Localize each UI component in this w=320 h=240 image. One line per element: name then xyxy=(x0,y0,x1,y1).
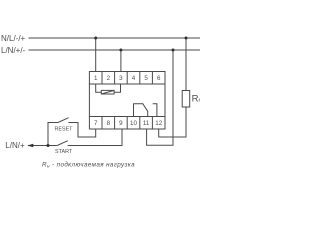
svg-text:RESET: RESET xyxy=(55,127,74,133)
arrowhead L/N/+ input xyxy=(27,144,33,147)
svg-text:6: 6 xyxy=(157,75,161,82)
pin numbers 7-12 xyxy=(94,120,163,127)
svg-text:1: 1 xyxy=(94,75,98,82)
switch START blade xyxy=(57,141,68,146)
module body xyxy=(89,84,165,117)
varistor RU1 between terminals 1 and 3 xyxy=(96,84,121,94)
terminal row 1-6 xyxy=(89,72,165,85)
wire bus1 to resistor top xyxy=(185,38,187,91)
svg-text:10: 10 xyxy=(130,120,137,127)
net L/N/+/- bus wire xyxy=(29,49,201,51)
svg-text:START: START xyxy=(55,149,73,155)
net N/L/-/+ bus wire xyxy=(29,37,201,39)
wire bus2 to terminal 3 xyxy=(120,50,122,72)
svg-text:4: 4 xyxy=(132,75,136,82)
wire L/N/+ bus with START to terminal 9 xyxy=(28,129,122,146)
wire bus2 to terminal 11 loop xyxy=(147,50,173,145)
wire RESET branch to terminal 7 xyxy=(48,123,96,146)
switch RESET blade xyxy=(58,118,69,123)
terminal row 7-12 xyxy=(89,117,165,130)
svg-text:Rн: Rн xyxy=(192,93,200,104)
node junction bus2/terminal11 xyxy=(172,49,175,52)
svg-text:2: 2 xyxy=(107,75,111,82)
node junction L/N/+ reset branch xyxy=(47,144,50,147)
wire resistor bottom to terminal 12 xyxy=(159,107,186,137)
svg-text:11: 11 xyxy=(143,120,150,127)
svg-text:5: 5 xyxy=(144,75,148,82)
svg-text:L/N/+/-: L/N/+/- xyxy=(1,46,26,55)
resistor Rн (load) xyxy=(182,91,190,108)
svg-text:8: 8 xyxy=(107,120,111,127)
node junction bus2/terminal3 xyxy=(119,49,122,52)
svg-text:L/N/+: L/N/+ xyxy=(5,141,25,150)
svg-text:9: 9 xyxy=(119,120,123,127)
relay contact K1 (terminals 10-11-12) xyxy=(134,104,157,117)
svg-text:N/L/-/+: N/L/-/+ xyxy=(1,34,26,43)
node junction bus1/resistor xyxy=(185,37,188,40)
svg-text:3: 3 xyxy=(119,75,123,82)
svg-text:Rн - подключаемая нагрузка: Rн - подключаемая нагрузка xyxy=(42,161,135,169)
wire bus1 to terminal 1 xyxy=(95,38,97,72)
svg-text:12: 12 xyxy=(155,120,162,127)
node junction bus1/terminal1 xyxy=(94,37,97,40)
svg-text:7: 7 xyxy=(94,120,98,127)
pin numbers 1-6 xyxy=(94,75,161,82)
